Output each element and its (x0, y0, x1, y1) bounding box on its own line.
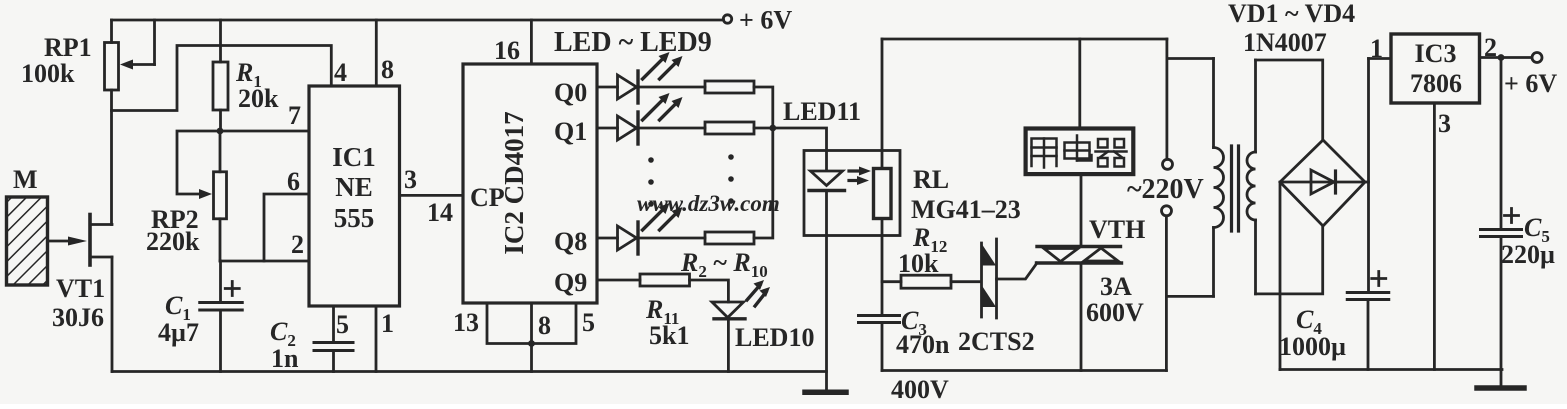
wire to IC1 pin 4 (reset) (112, 46, 332, 111)
wire C3 bottom (881, 323, 884, 371)
svg-text:2: 2 (291, 230, 304, 259)
wire IC1 pin 5 (332, 306, 335, 343)
LED (Q8 row) (618, 203, 683, 254)
resistor (Q0 row) (705, 81, 754, 93)
svg-text:7806: 7806 (1410, 69, 1462, 98)
svg-text:4µ7: 4µ7 (158, 318, 199, 347)
bridge rectifier VD1-VD4 (1280, 140, 1365, 226)
capacitor C3 470n 400V (859, 316, 900, 323)
wire power section bottom rail (882, 369, 1166, 372)
IC2 CD4017 (463, 64, 597, 303)
svg-text:3: 3 (404, 165, 417, 194)
wire IC1 pin 7 (220, 130, 309, 133)
wire ground rail (logic) (112, 370, 826, 373)
svg-text:20k: 20k (238, 84, 279, 113)
wire (690, 280, 729, 302)
wire IC3 pin2 to +6V (1480, 56, 1532, 59)
node ~220V terminals (1127, 39, 1204, 371)
svg-text:IC3: IC3 (1415, 39, 1457, 68)
svg-text:8: 8 (538, 311, 551, 340)
svg-text:400V: 400V (891, 375, 949, 404)
svg-text:470n: 470n (896, 330, 950, 359)
triac VTH 3A 600V (1037, 175, 1146, 371)
LED10 (712, 280, 814, 372)
wire C4 bottom (1367, 300, 1370, 370)
svg-text:4: 4 (334, 58, 347, 87)
wire bridge DC- to supply rail (1279, 182, 1282, 370)
svg-text:RP1: RP1 (44, 33, 92, 62)
wire IC1 pin3 to IC2 CP (400, 194, 464, 197)
svg-text:8: 8 (381, 55, 394, 84)
svg-text:LED11: LED11 (783, 97, 861, 126)
svg-text:Q0: Q0 (554, 78, 587, 107)
ground (supply) (1500, 370, 1503, 387)
wire IC3 pin3 (1433, 103, 1436, 370)
microphone M (7, 165, 48, 285)
wire (638, 127, 705, 130)
wire (754, 127, 773, 130)
wire Q1 row (597, 127, 618, 130)
svg-text:1: 1 (381, 309, 394, 338)
svg-text:6: 6 (287, 167, 300, 196)
ground (logic) (805, 390, 846, 396)
svg-text:+ 6V: + 6V (1504, 69, 1557, 98)
wire IC1 pin 6 (264, 194, 309, 261)
ellipsis dots (648, 154, 734, 207)
LED (Q1 row) (618, 93, 683, 144)
wire C1 bottom (219, 310, 222, 372)
svg-text:LED ~ LED9: LED ~ LED9 (554, 27, 712, 58)
svg-text:10k: 10k (898, 249, 939, 278)
svg-text:600V: 600V (1086, 298, 1144, 327)
LED (Q0 row) (618, 52, 683, 103)
svg-text:220k: 220k (146, 227, 200, 256)
svg-text:555: 555 (334, 203, 375, 233)
svg-text:R2 ~ R10: R2 ~ R10 (680, 248, 768, 281)
svg-text:5k1: 5k1 (649, 321, 689, 350)
svg-text:IC1: IC1 (332, 142, 376, 172)
svg-text:1n: 1n (271, 344, 299, 373)
svg-text:2CTS2: 2CTS2 (958, 327, 1035, 356)
potentiometer RP1 100k (21, 20, 155, 90)
svg-text:3A: 3A (1100, 272, 1132, 301)
wire IC1 pin 8 (375, 20, 378, 86)
svg-text:NE: NE (335, 172, 373, 202)
wire C2 bottom (332, 351, 335, 372)
wire secondary to bridge (1256, 60, 1323, 140)
wire (951, 280, 981, 283)
svg-text:1N4007: 1N4007 (1243, 28, 1327, 57)
svg-text:3: 3 (1438, 109, 1451, 138)
wire diac to triac gate (997, 263, 1038, 279)
pin labels IC1 (287, 55, 453, 339)
node +6V terminal (right) (1532, 53, 1542, 63)
wire (754, 87, 773, 128)
wire node RL/R12/C3 (882, 280, 901, 283)
resistor (Q8 row) (705, 232, 754, 244)
node +6V terminal (top) (723, 15, 731, 23)
optocoupler box (LED11 + RL) (804, 151, 900, 236)
svg-text:+ 6V: + 6V (739, 6, 792, 35)
resistor R11 5k1 (640, 274, 690, 286)
wire C1 top (219, 261, 222, 303)
svg-text:7: 7 (288, 101, 301, 130)
wire RP1 bottom / VT1 drain (110, 90, 113, 225)
svg-text:Q8: Q8 (554, 227, 587, 256)
svg-text:13: 13 (453, 308, 479, 337)
transformer core (1230, 146, 1233, 231)
svg-text:LED10: LED10 (735, 323, 814, 352)
wire (638, 237, 705, 240)
wire (638, 86, 705, 89)
wire Q9 row (597, 279, 640, 282)
svg-text:5: 5 (582, 308, 595, 337)
svg-text:16: 16 (494, 36, 520, 65)
capacitor C4 1000u (1347, 272, 1389, 300)
appliance box (load) (1026, 39, 1134, 174)
svg-text:www.dz3w.com: www.dz3w.com (637, 191, 780, 216)
svg-text:RL: RL (913, 165, 949, 194)
wire Q8 row (597, 237, 618, 240)
op-amp/timer IC1 NE555 (309, 86, 400, 306)
transformer T primary (1166, 59, 1223, 297)
wire C5 bottom (1500, 237, 1503, 370)
diac 2CTS2 (958, 239, 1035, 356)
svg-text:5: 5 (336, 310, 349, 339)
svg-text:1000µ: 1000µ (1279, 332, 1346, 361)
transformer secondary (1247, 60, 1256, 294)
svg-text:2: 2 (1484, 33, 1497, 62)
photoresistor RL MG41-23 (874, 39, 1021, 315)
resistor (Q1 row) (705, 122, 754, 134)
svg-text:Q1: Q1 (554, 117, 587, 146)
resistor R1 20k (213, 20, 279, 131)
wire IC1 pin 1 (gnd) (375, 306, 378, 372)
svg-text:220µ: 220µ (1501, 240, 1555, 269)
svg-text:VT1: VT1 (56, 274, 105, 303)
wire IC3 pin1 (1369, 57, 1392, 60)
potentiometer RP2 220k (146, 131, 227, 261)
svg-text:30J6: 30J6 (52, 303, 104, 332)
svg-text:MG41–23: MG41–23 (911, 195, 1021, 224)
label appliance glyphs (1032, 136, 1127, 168)
wire bridge DC+ (1365, 181, 1369, 184)
node junction R1-RP2-pin7 (217, 128, 224, 135)
wire power box top (882, 38, 1167, 41)
capacitor C5 220u (1481, 209, 1522, 237)
wire bus (754, 128, 773, 238)
LED11 (opto LED) (809, 167, 871, 392)
wire LED11 branch (773, 128, 827, 170)
svg-text:100k: 100k (21, 59, 75, 88)
svg-text:M: M (13, 165, 38, 194)
svg-text:1: 1 (1370, 34, 1383, 63)
resistor R12 10k (901, 275, 951, 288)
svg-text:14: 14 (427, 198, 453, 227)
svg-text:VTH: VTH (1089, 215, 1145, 244)
wire +6V top rail (112, 19, 724, 22)
wire IC1 pin 2 (220, 260, 309, 263)
wire IC2 pin 16 (530, 20, 533, 64)
capacitor C1 4u7 (200, 282, 243, 311)
wire IC2 pins 13-8-5 to ground (453, 303, 595, 372)
svg-text:VD1 ~ VD4: VD1 ~ VD4 (1228, 0, 1355, 28)
wire C5 top (1500, 58, 1503, 230)
svg-text:Q9: Q9 (554, 268, 587, 297)
regulator IC3 7806 (1391, 34, 1480, 103)
transistor VT1 30J6 (48, 215, 113, 372)
wire Q0 row (597, 86, 618, 89)
svg-text:~220V: ~220V (1127, 174, 1204, 205)
capacitor C2 1n (314, 343, 353, 351)
svg-text:CP: CP (470, 183, 505, 212)
